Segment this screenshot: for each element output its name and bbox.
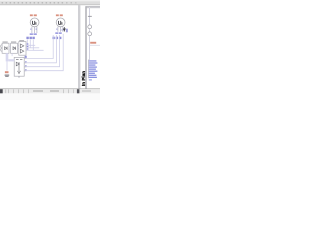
diode D1 beside Q2 [63, 27, 65, 32]
connector squiggle at left edge [0, 45, 3, 52]
U1A label [3, 42, 8, 43]
U3 bottom pin [18, 76, 20, 78]
Q2 pin numbers [56, 29, 57, 30]
U1B glyph [13, 47, 16, 50]
sheet2 lamp L1 [88, 25, 92, 29]
net label right of D1 [66, 29, 68, 33]
status separators [6, 89, 74, 93]
Q1 wires to U2 [26, 40, 43, 51]
IC U3 box (lower tall) [14, 57, 24, 76]
Q2 wires to U3 [26, 34, 63, 71]
Q2 wire labels [52, 37, 54, 39]
U1B label [11, 42, 16, 43]
opto U1A box [2, 43, 9, 53]
Q1 wire labels [26, 37, 28, 39]
svg-text:In Plan: In Plan [81, 71, 86, 86]
toolbar icons [2, 2, 77, 4]
extra net label below column [89, 79, 92, 80]
U2 right pin labels [27, 43, 29, 44]
sheet2 horizontal wire [90, 44, 100, 46]
Q1 legs [32, 27, 37, 33]
Q2 legs [58, 27, 63, 32]
blue net label column on sheet2 [89, 60, 98, 78]
U1A glyph [5, 47, 8, 50]
IC U2 box (upper tall) [19, 42, 26, 56]
wires between A and B [9, 46, 19, 50]
net label above U3 pin1 [25, 56, 27, 58]
transistor Q1 [30, 18, 39, 27]
toolbar [0, 0, 100, 1]
Q2 net label [55, 32, 58, 34]
stub under U1B [11, 53, 14, 56]
status text hints [33, 90, 43, 91]
U3 right pin labels [25, 57, 27, 58]
transistor Q2 red label [56, 14, 59, 16]
U2 glyphs [20, 44, 23, 53]
U3 right pin stubs [24, 59, 26, 71]
Q1 net label [30, 33, 33, 35]
canvas background [0, 0, 100, 100]
status dark cell left [0, 89, 3, 93]
sheet2 red label [90, 42, 96, 44]
bus highlight from U1B down to U3 [6, 53, 9, 61]
ground symbol text [5, 75, 10, 76]
transistor Q2 [56, 18, 65, 27]
gray leader line left of labels [87, 60, 89, 79]
sheet2 tick [88, 15, 92, 18]
sheet2 lamp L2 [88, 32, 92, 36]
sheet2 left border [84, 6, 87, 88]
U3 glyphs [16, 59, 22, 73]
U2 label [19, 40, 24, 41]
area below status bar [0, 93, 100, 100]
transistor Q1 red label [30, 14, 33, 16]
sheet2 wire [89, 8, 91, 61]
sheet1 right border [78, 5, 81, 88]
wire from U1A down to ground [6, 61, 9, 70]
status dark segment [77, 89, 80, 93]
opto U1B box [11, 43, 18, 53]
status bar [0, 89, 100, 93]
GND red label [5, 71, 9, 73]
sheet2 top border [86, 5, 100, 8]
Q1 pin numbers [30, 29, 31, 30]
status bar top line [0, 88, 100, 91]
